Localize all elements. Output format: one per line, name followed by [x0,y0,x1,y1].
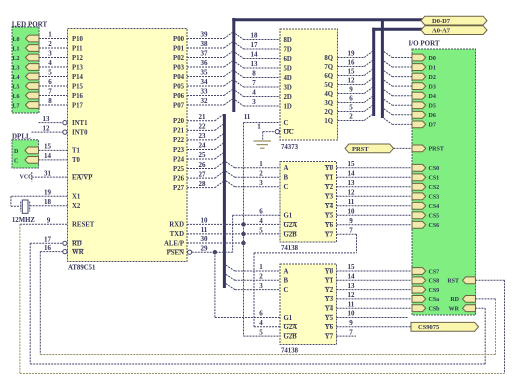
svg-text:Y2: Y2 [325,287,334,294]
LED PORT pin 6 body [26,83,40,90]
bus entry P00 [224,33,232,39]
svg-text:X2: X2 [72,203,81,210]
wire 74138-1 C pin 3 [235,186,280,188]
svg-text:6: 6 [48,78,52,86]
I/O PORT pin RST body [463,277,476,284]
svg-text:1: 1 [259,160,263,168]
wire port D3 [392,85,412,87]
svg-text:Y2: Y2 [325,184,334,191]
wire P24 pin 25 [187,158,215,160]
wire port D2 [392,76,412,78]
svg-text:7: 7 [252,79,256,87]
svg-text:P06: P06 [173,93,185,100]
bus exit to port D5 [384,99,392,105]
svg-text:5: 5 [259,328,263,336]
wire 2D pin 4 [244,96,281,98]
bus exit to 74373 2D [235,91,243,97]
bus entry 7Q [364,61,372,67]
bus entry P06 [224,90,232,96]
I/O PORT pin CS7 body [412,268,426,275]
bus entry P05 [224,80,232,86]
svg-text:P24: P24 [173,156,185,163]
inversion bubble RD [63,241,67,245]
svg-text:P20: P20 [173,118,185,125]
svg-text:14: 14 [251,51,259,59]
svg-text:13: 13 [348,179,356,187]
wire Y4 pin 11 to CS4 [337,205,413,207]
wire ALE to 74373 C pin 11 [244,122,281,124]
svg-text:74373: 74373 [281,144,299,151]
svg-text:1: 1 [257,123,261,131]
svg-text:PRST: PRST [429,147,444,153]
svg-text:D1: D1 [429,65,436,71]
bus exit to port D4 [384,90,392,96]
decoder U4 74138 [280,264,337,345]
svg-text:1Q: 1Q [324,118,333,125]
svg-text:G2A: G2A [284,324,298,331]
wire 5Q pin 12 [338,84,365,86]
svg-text:5Q: 5Q [324,82,333,89]
wire Y7 loop to 74138-2 G2A [337,233,357,235]
svg-text:12MHZ: 12MHZ [12,217,35,224]
svg-text:Y4: Y4 [325,203,334,210]
wire Y6 pin 9 to CS9075 [337,326,412,328]
wire P27 pin 28 [187,187,215,189]
svg-text:4D: 4D [284,75,292,82]
svg-text:Y1: Y1 [325,278,334,285]
wire P26 pin 27 [187,177,215,179]
svg-text:P25: P25 [173,166,185,173]
wire LED L0 to P10 [39,38,68,40]
bus exit to port D2 [384,71,392,77]
bus exit to 74373 1D [235,100,243,106]
wire 1Q pin 2 [338,120,365,122]
svg-text:2: 2 [349,113,353,121]
svg-text:8D: 8D [284,37,292,44]
inversion bubble PSEN [188,250,192,254]
svg-text:B: B [284,175,289,182]
bus entry P04 [224,71,232,77]
bus exit to 74373 5D [235,62,243,68]
svg-text:P05: P05 [173,83,185,90]
svg-text:C: C [284,287,289,294]
wire Y2 pin 13 to CS9 [337,289,413,291]
I/O PORT pin CS3 body [412,193,426,200]
crystal Y1 12MHZ [22,200,28,213]
svg-text:36: 36 [201,59,209,67]
svg-text:Y5: Y5 [325,315,334,322]
net flag CS9075 [411,322,479,331]
svg-text:CS0: CS0 [429,166,440,172]
svg-text:WR: WR [72,249,84,256]
bus exit to 74138-1 B [226,171,235,177]
svg-text:D0: D0 [429,56,436,62]
svg-text:5: 5 [259,227,263,235]
wire PSEN to 74138 G1 vertical [232,215,234,252]
wire LED L1 to P11 [39,47,68,49]
svg-text:17: 17 [44,236,52,244]
crystal right electrode [29,202,31,212]
wire P06 pin 33 [187,95,224,97]
wire 7Q pin 16 [338,66,365,68]
bus entry 8Q [364,52,372,58]
svg-text:14: 14 [348,273,356,281]
svg-text:9: 9 [349,86,353,94]
svg-text:VCC: VCC [20,175,33,181]
svg-text:CSa: CSa [429,297,440,303]
svg-text:PRST: PRST [352,146,369,153]
svg-text:CS3: CS3 [429,195,440,201]
svg-text:RD: RD [72,241,82,248]
svg-text:P14: P14 [72,74,84,81]
svg-text:22: 22 [199,123,207,131]
svg-text:CS9075: CS9075 [418,324,440,331]
bus entry P22 [215,134,223,140]
wire 74138-1 A pin 1 [235,167,280,169]
svg-text:D3: D3 [429,84,436,90]
wire Y0 pin 15 to CS7 [337,270,413,272]
svg-text:3: 3 [48,50,52,58]
address bus A0-A7 horizontal top [372,28,422,31]
wire port D1 [392,66,412,68]
bus exit to 74373 4D [235,72,243,78]
bus entry P23 [215,143,223,149]
svg-text:P17: P17 [72,102,84,109]
bus entry 2Q [364,106,372,112]
I/O PORT pin CSb body [412,305,426,312]
wire crystal to X2 pin 18 [30,205,68,207]
LED PORT pin 3 body [26,54,40,61]
svg-text:PSEN: PSEN [167,250,184,257]
svg-text:15: 15 [44,143,52,151]
wire LED L3 to P13 [39,66,68,68]
svg-text:11: 11 [348,198,355,206]
svg-text:A: A [284,165,289,172]
wire 4D pin 8 [244,77,281,79]
svg-text:1D: 1D [284,103,292,110]
wire Y4 pin 11 to CS11 [337,307,413,309]
svg-text:12: 12 [43,124,51,132]
svg-text:Y0: Y0 [325,165,334,172]
bus exit to 74138-2 C [226,284,235,290]
svg-text:5: 5 [349,104,353,112]
wire 3Q pin 6 [338,102,365,104]
svg-text:Y4: Y4 [325,306,334,313]
svg-text:Y5: Y5 [325,213,334,220]
svg-text:L0: L0 [13,37,20,43]
svg-text:D2: D2 [429,75,436,81]
wire WR net loop [39,252,41,355]
wire 6Q pin 15 [338,75,365,77]
wire X1 pin 19 [11,195,68,197]
svg-text:P01: P01 [173,45,185,52]
svg-text:RXD: RXD [169,222,184,229]
svg-text:6Q: 6Q [324,73,333,80]
address bus P2 vertical [223,114,226,288]
svg-text:74138: 74138 [281,245,299,252]
bus exit to port D1 [384,61,392,67]
svg-text:P03: P03 [173,64,185,71]
bus exit to port D7 [384,118,392,124]
wire LED L2 to P12 [39,57,68,59]
bus entry 1Q [364,115,372,121]
wire LED L6 to P16 [39,95,68,97]
svg-text:6: 6 [259,310,263,318]
svg-text:T1: T1 [72,148,81,155]
svg-text:G2A: G2A [284,222,298,229]
svg-text:34: 34 [201,78,209,86]
svg-text:4: 4 [48,59,52,67]
svg-text:CS4: CS4 [429,204,440,210]
wire LED L7 to P17 [39,104,68,106]
svg-text:4: 4 [252,89,256,97]
bus exit to port D0 [384,52,392,58]
I/O PORT pin CS4 body [412,202,426,209]
bus entry P27 [215,182,223,188]
wire G2A pin 4 (74138-2) [254,326,280,328]
wire LED L4 to P14 [39,76,68,78]
I/O PORT pin RD body [463,296,476,303]
svg-text:28: 28 [199,180,207,188]
wire TXD pin 11 to 74138 G2B [187,233,280,235]
svg-text:8: 8 [252,70,256,78]
svg-text:P10: P10 [72,36,84,43]
svg-text:L5: L5 [13,84,20,90]
junction RXD/G2A [241,222,245,226]
wire 74138-2 A pin 1 [235,270,280,272]
svg-text:23: 23 [199,132,207,140]
svg-text:P21: P21 [173,128,185,135]
LED PORT pin 4 body [26,64,40,71]
bus entry P03 [224,61,232,67]
svg-text:WR: WR [449,307,460,313]
svg-text:CS1: CS1 [429,176,440,182]
svg-text:12: 12 [348,77,356,85]
svg-text:D6: D6 [429,113,436,119]
svg-text:29: 29 [201,244,209,252]
inversion bubble INT0 [63,130,67,134]
I/O PORT pin CS1 body [412,174,426,181]
svg-text:D0-D7: D0-D7 [432,18,451,25]
LED PORT connector J-LED [12,27,39,113]
wire 1D pin 3 [244,105,281,107]
svg-text:Y7: Y7 [325,333,334,340]
I/O PORT pin D4 body [412,92,426,99]
svg-text:L7: L7 [13,103,20,109]
bus exit to 74138-1 A [226,162,235,168]
svg-text:1: 1 [48,31,52,39]
I/O PORT pin D7 body [412,121,426,128]
svg-text:7Q: 7Q [324,64,333,71]
svg-text:13: 13 [251,60,259,68]
svg-text:P22: P22 [173,137,185,144]
wire P07 pin 32 [187,104,224,106]
wire P03 pin 36 [187,66,224,68]
wire DPLL D to T1 [39,149,68,151]
wire Y7 pin 7 stub [337,335,357,337]
bus exit to 74138-1 C [226,181,235,187]
inversion bubble WR [63,250,67,254]
svg-text:3D: 3D [284,84,292,91]
svg-text:D4: D4 [429,94,436,100]
bus entry P01 [224,42,232,48]
I/O PORT pin CS9 body [412,286,426,293]
svg-text:L3: L3 [13,65,20,71]
wire P20 pin 21 [187,120,215,122]
svg-text:21: 21 [199,113,207,121]
svg-text:P07: P07 [173,102,185,109]
svg-text:18: 18 [251,32,259,40]
svg-text:38: 38 [201,40,209,48]
DPLL pin 15 body [25,147,39,154]
wire port D6 [392,114,412,116]
svg-text:15: 15 [348,263,356,271]
DPLL connector [12,140,39,168]
svg-text:OC: OC [284,129,294,136]
svg-text:11: 11 [201,226,208,234]
ground symbol [254,141,272,148]
svg-text:CS7: CS7 [429,269,440,275]
bus exit to port D3 [384,80,392,86]
svg-text:7: 7 [349,227,353,235]
svg-text:P27: P27 [173,185,185,192]
svg-text:CS6: CS6 [429,223,440,229]
svg-text:15: 15 [348,68,356,76]
svg-text:L4: L4 [13,75,20,81]
I/O PORT pin D3 body [412,83,426,90]
svg-text:26: 26 [199,161,207,169]
svg-text:INT0: INT0 [72,129,88,136]
wire ALE net to 74138-2 G2B [244,335,281,337]
svg-text:2Q: 2Q [324,109,333,116]
wire 74138-2 B pin 2 [235,279,280,281]
wire 2Q pin 5 [338,111,365,113]
wire G1 pin 6 [233,214,280,216]
bus entry 5Q [364,79,372,85]
svg-text:9: 9 [47,216,51,224]
bus entry 6Q [364,70,372,76]
svg-text:D7: D7 [429,123,436,129]
svg-text:CS2: CS2 [429,185,440,191]
svg-text:6D: 6D [284,56,292,63]
svg-text:11: 11 [348,300,355,308]
svg-text:16: 16 [44,244,52,252]
svg-text:18: 18 [44,198,52,206]
wire Y5 pin 10 stub [337,317,409,319]
svg-text:Y6: Y6 [325,324,334,331]
latch U2 74373 [280,29,338,140]
wire P23 pin 24 [187,148,215,150]
svg-text:4Q: 4Q [324,91,333,98]
svg-text:31: 31 [44,169,52,177]
I/O PORT pin D5 body [412,102,426,109]
svg-text:3: 3 [259,179,263,187]
svg-text:12: 12 [348,189,356,197]
wire OC to ground [262,132,264,141]
svg-text:39: 39 [201,31,209,39]
svg-text:35: 35 [201,69,209,77]
bus exit to 74138-2 B [226,274,235,280]
svg-text:16: 16 [348,59,356,67]
svg-text:15: 15 [348,160,356,168]
svg-text:P16: P16 [72,93,84,100]
bus exit to port D6 [384,109,392,115]
svg-text:7: 7 [48,88,52,96]
svg-text:Y1: Y1 [325,175,334,182]
svg-text:10: 10 [348,208,356,216]
svg-text:ALE/P: ALE/P [164,240,184,247]
bus entry P07 [224,99,232,105]
wire Y3 pin 12 to CS10 [337,298,413,300]
svg-text:CS9: CS9 [429,288,440,294]
wire X1 vertical [10,196,12,206]
bus entry P25 [215,163,223,169]
svg-text:L1: L1 [13,46,20,52]
svg-text:L6: L6 [13,94,20,100]
svg-text:CS8: CS8 [429,279,440,285]
svg-text:5D: 5D [284,65,292,72]
svg-text:9: 9 [349,319,353,327]
I/O PORT pin PRST body [412,145,426,152]
svg-text:2: 2 [259,273,263,281]
data bus D0-D7 vertical left [232,18,235,112]
wire stub INT1 pin 13 [39,122,63,124]
svg-text:P02: P02 [173,55,185,62]
wire PRST flag to port [394,147,413,149]
wire port D7 [392,123,412,125]
net flag PRST [345,144,394,153]
wire to 74138-2 G1 pin 6 [215,317,280,319]
data bus vertical right (to I/O port) [381,19,384,119]
svg-text:T0: T0 [72,157,81,164]
svg-text:24: 24 [199,142,207,150]
svg-text:2: 2 [48,40,52,48]
wire Y5 pin 10 to CS5 [337,214,413,216]
wire port D5 [392,104,412,106]
svg-text:I/O PORT: I/O PORT [409,39,440,47]
I/O PORT pin D1 body [412,64,426,71]
junction PSEN [213,250,217,254]
wire PSEN branch vertical [214,252,216,317]
svg-text:19: 19 [44,189,52,197]
wire VCC to EA/VP pin 31 [32,176,68,178]
bus entry P24 [215,153,223,159]
svg-text:13: 13 [348,282,356,290]
bus entry 4Q [364,88,372,94]
bus entry P02 [224,52,232,58]
svg-text:6: 6 [349,95,353,103]
wire RESET net loop (RST) [19,224,21,373]
I/O PORT pin WR body [463,305,476,312]
svg-text:9: 9 [349,217,353,225]
svg-text:P00: P00 [173,36,185,43]
svg-text:B: B [284,278,289,285]
svg-text:CS5: CS5 [429,214,440,220]
svg-text:RESET: RESET [72,222,95,229]
wire 74138-1 B pin 2 [235,176,280,178]
svg-text:RD: RD [450,297,459,303]
net wire ALE vertical [243,123,245,337]
svg-text:3: 3 [252,98,256,106]
svg-text:P12: P12 [72,55,84,62]
svg-text:Y3: Y3 [325,296,334,303]
decoder U3 74138 [280,162,337,243]
address bus vertical (74373 outputs) [372,28,375,116]
svg-text:8: 8 [48,97,52,105]
I/O PORT pin D6 body [412,111,426,118]
svg-text:L2: L2 [13,56,20,62]
bus exit to 74373 8D [235,34,243,40]
